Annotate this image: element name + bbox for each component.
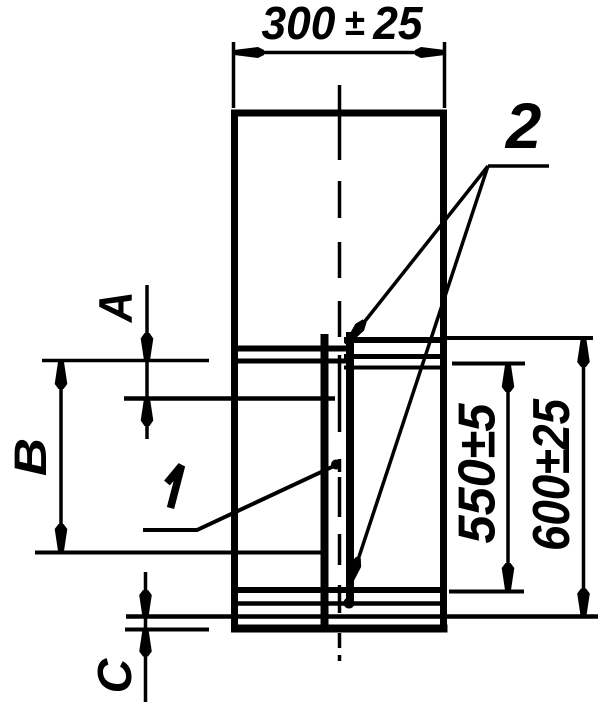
middle band line low-right [344, 366, 444, 370]
600 dim top tick [444, 336, 593, 340]
specimen outline: bottom edge [231, 625, 448, 633]
svg-text:C: C [89, 657, 142, 693]
extension line right of 300 dim [443, 42, 447, 108]
550 top arrow [502, 365, 515, 392]
dimension B bottom extension line [35, 551, 327, 555]
dimension A extension line lower [124, 396, 335, 401]
middle band line top-right [344, 337, 444, 343]
arrow at middle tack [342, 318, 369, 348]
arrow left of 300 dim [234, 47, 264, 58]
dimension C lower extension line [125, 628, 209, 632]
svg-text:B: B [7, 438, 57, 476]
dimension line 300 [234, 51, 445, 55]
extension line left of 300 dim [232, 42, 236, 108]
bottom band line 1 [236, 587, 444, 593]
dimension A shaft [145, 285, 149, 439]
dimension A lower arrow [141, 399, 154, 427]
leader underline for label 2 [488, 164, 549, 168]
dimension A upper arrow [141, 333, 154, 361]
middle band line mid-right [344, 354, 444, 359]
specimen outline: top edge [231, 110, 447, 117]
svg-text:550±5: 550±5 [449, 402, 507, 543]
leader to bottom tack [352, 166, 488, 578]
dimension C lower arrow [139, 630, 152, 657]
leader line for label 1 [143, 466, 334, 530]
550 dim top tick [452, 362, 525, 366]
specimen outline: left edge [231, 110, 238, 633]
dot at lower seam crossing [344, 598, 355, 609]
leader dot for label 1 [331, 460, 341, 470]
600 top arrow [577, 340, 590, 367]
middle seam: right stitch line [346, 332, 354, 604]
middle seam: left stitch line [321, 334, 329, 628]
label 1 [167, 466, 182, 509]
svg-text:600±25: 600±25 [523, 398, 581, 551]
bottom band line 2 [236, 601, 444, 606]
svg-text:2: 2 [505, 90, 542, 162]
550 dim shaft [506, 366, 510, 589]
600 dim shaft [582, 341, 586, 614]
dimension A extension line upper [42, 359, 209, 363]
bottom band line 3 (extends both sides) [126, 614, 598, 619]
dimension B top arrow [55, 362, 68, 389]
dimension B shaft [59, 361, 63, 552]
dimension C shaft [144, 572, 148, 702]
550 dim bottom tick [449, 590, 524, 594]
dimension B bottom arrow [55, 524, 68, 551]
specimen outline: right edge [440, 110, 447, 633]
svg-text:A: A [89, 291, 142, 323]
centerline (dash) [338, 85, 342, 661]
arrow at bottom tack [344, 556, 364, 588]
middle band line top-left [236, 346, 346, 352]
middle band line bottom-left [236, 359, 348, 364]
550 bottom arrow [502, 563, 515, 590]
svg-text:300 ± 25: 300 ± 25 [262, 0, 424, 49]
arrow right of 300 dim [415, 47, 445, 58]
600 bottom arrow [577, 589, 590, 616]
dimension C upper arrow [139, 590, 152, 617]
leader to middle tack [350, 166, 488, 340]
